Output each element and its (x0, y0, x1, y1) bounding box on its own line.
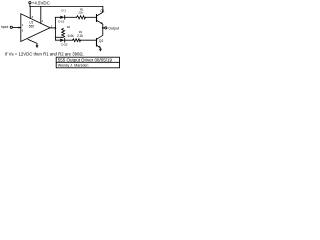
svg-text:Input: Input (1, 25, 9, 29)
wire D1 to R1 (65, 16, 77, 18)
ground arrow U1 (36, 45, 39, 48)
wire input to U1 (12, 26, 20, 28)
svg-text:Output: Output (108, 27, 119, 31)
wire R1 to Q1 base (86, 16, 97, 18)
node output junction (55, 27, 57, 29)
resistor R2 vertical (62, 28, 65, 37)
resistor R3 (73, 39, 81, 42)
wire to output terminal (103, 27, 105, 29)
svg-text:4: 4 (42, 19, 44, 23)
wire pin8 drop to U1 (29, 7, 31, 19)
op-amp U1 555 triangle (21, 14, 50, 42)
svg-text:Q2: Q2 (99, 39, 104, 43)
wire top rail (30, 6, 103, 8)
svg-text:If Vs = 12VDC then R1 and R2 a: If Vs = 12VDC then R1 and R2 are 390Ω. (5, 52, 84, 57)
svg-text:D-52: D-52 (61, 42, 68, 46)
title block box (56, 57, 119, 68)
svg-text:22k: 22k (78, 11, 83, 15)
svg-text:+4.5VDC: +4.5VDC (32, 0, 50, 5)
svg-text:8: 8 (32, 15, 34, 19)
svg-text:2.2k: 2.2k (77, 34, 83, 38)
wire junction down to lower branch (55, 28, 60, 40)
wire junction up to diode row (55, 17, 60, 28)
svg-text:555: 555 (29, 25, 35, 29)
svg-text:5.6k: 5.6k (68, 34, 74, 38)
wire supply stub down (29, 4, 31, 7)
svg-text:Q1: Q1 (100, 9, 105, 13)
output terminal (105, 27, 107, 29)
wire U1 ground diagonal (28, 39, 37, 45)
transistor Q2 (96, 39, 98, 46)
svg-text:6: 6 (22, 28, 24, 32)
wire U1 output pin3 (50, 27, 55, 29)
transistor Q1 (96, 15, 98, 22)
svg-text:R2: R2 (67, 25, 71, 29)
wire pin4 drop to U1 (40, 7, 42, 24)
svg-text:555 Output Driver 08/05/19: 555 Output Driver 08/05/19 (58, 57, 113, 62)
supply terminal +4.5VDC (29, 1, 31, 3)
svg-text:D-1: D-1 (62, 8, 67, 12)
input terminal (10, 26, 12, 28)
svg-text:D-52: D-52 (58, 19, 65, 23)
wire D2 to R3 (65, 39, 73, 41)
resistor R1 (77, 16, 86, 19)
svg-text:2: 2 (22, 23, 24, 27)
node output at emitters (102, 27, 104, 29)
input arrowhead (19, 27, 21, 29)
ground arrow Q2 (99, 49, 102, 52)
svg-text:Wendy J. Marsden: Wendy J. Marsden (58, 64, 89, 68)
title block divider (56, 61, 119, 63)
diode D1 (60, 16, 64, 19)
wire R3 to Q2 base (81, 39, 97, 41)
wire R2 bottom stub (55, 36, 61, 38)
diode D2 (60, 39, 64, 42)
